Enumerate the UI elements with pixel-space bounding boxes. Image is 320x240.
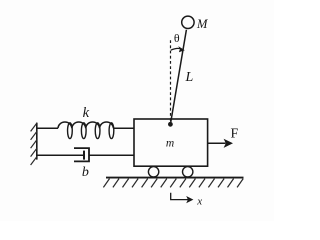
x coordinate arrow <box>171 193 194 203</box>
spring k coil humps <box>58 122 113 128</box>
damper rod to cart <box>89 154 134 156</box>
svg-text:k: k <box>83 105 90 121</box>
wire spring-to-wall <box>37 127 58 129</box>
svg-text:F: F <box>231 127 239 142</box>
pivot dot <box>168 122 173 127</box>
svg-text:m: m <box>166 137 174 149</box>
damper piston plate <box>83 151 85 160</box>
damper cylinder <box>74 148 89 161</box>
wall <box>36 123 38 160</box>
cart body m <box>134 119 208 166</box>
svg-text:L: L <box>185 70 194 85</box>
dashed vertical reference line <box>170 40 172 121</box>
svg-text:b: b <box>82 165 89 180</box>
pendulum ball M <box>182 16 194 28</box>
svg-text:M: M <box>196 17 208 31</box>
force F arrow <box>208 139 233 148</box>
wheel left <box>148 167 158 177</box>
wire spring-to-cart <box>114 127 134 129</box>
spring k hanging loops <box>68 123 114 139</box>
ground line <box>106 177 244 179</box>
svg-text:x: x <box>196 195 202 207</box>
wall hatching <box>31 123 38 165</box>
wheel right <box>183 167 193 177</box>
angle theta arc arrow <box>171 46 185 52</box>
svg-text:θ: θ <box>174 31 180 45</box>
ground hatching <box>103 179 243 188</box>
damper rod from wall <box>37 154 84 156</box>
pendulum rod L <box>170 30 186 125</box>
